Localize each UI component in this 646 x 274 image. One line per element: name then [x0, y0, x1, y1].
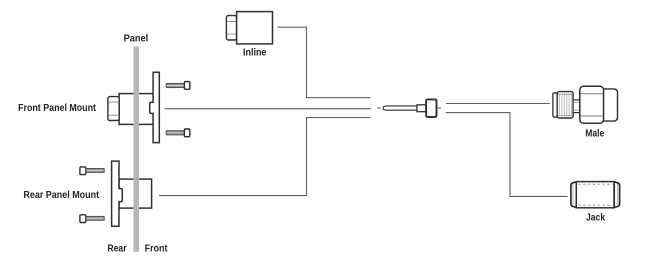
- svg-text:Panel: Panel: [124, 32, 149, 44]
- male connector knurled section: [557, 92, 573, 118]
- rear panel mount flange with keying tab: [112, 161, 123, 226]
- wire from rear panel mount (elbow up to bottom feed line): [159, 118, 371, 196]
- inline connector nut: [226, 16, 236, 40]
- wire to male connector (top right): [446, 103, 550, 105]
- panel strip overlay across front mount body: [134, 93, 140, 126]
- svg-text:Rear: Rear: [107, 242, 126, 254]
- panel strip (grey vertical panel): [134, 47, 140, 252]
- male connector hex body: [580, 86, 604, 123]
- rear panel mount body: [119, 179, 152, 208]
- center pin left tick: [377, 107, 381, 109]
- svg-text:Inline: Inline: [243, 47, 267, 59]
- svg-text:Rear Panel Mount: Rear Panel Mount: [23, 189, 99, 201]
- male connector left end cap: [553, 93, 557, 117]
- svg-text:Jack: Jack: [586, 212, 605, 224]
- svg-text:Front: Front: [145, 242, 168, 254]
- jack connector right cap: [614, 182, 619, 208]
- center pin right tick: [438, 107, 442, 109]
- svg-text:Male: Male: [585, 128, 604, 140]
- jack connector body: [576, 182, 614, 208]
- center pin step section: [417, 105, 426, 112]
- wire from front panel mount (middle feed line): [165, 108, 372, 110]
- jack connector left cap: [571, 182, 576, 208]
- wire to jack connector (elbow down right): [446, 113, 568, 197]
- male connector neck: [573, 100, 580, 113]
- front panel mount nut: [108, 97, 119, 121]
- panel strip overlay across rear mount body: [134, 178, 140, 209]
- front mount screw top: [166, 83, 184, 87]
- center pin ferrule: [426, 99, 436, 117]
- center pin shaft with chamfered tip: [383, 106, 417, 110]
- svg-text:Front Panel Mount: Front Panel Mount: [18, 102, 96, 114]
- rear mount screw top: [80, 167, 86, 175]
- front panel mount flange with keying tab: [150, 72, 160, 142]
- wire from inline connector (elbow down to top feed line): [278, 27, 371, 98]
- front panel mount body: [119, 94, 153, 125]
- rear mount screw bottom: [80, 215, 86, 223]
- front mount screw bottom: [166, 131, 184, 135]
- inline connector body: [237, 12, 273, 44]
- male connector right cap: [604, 89, 618, 121]
